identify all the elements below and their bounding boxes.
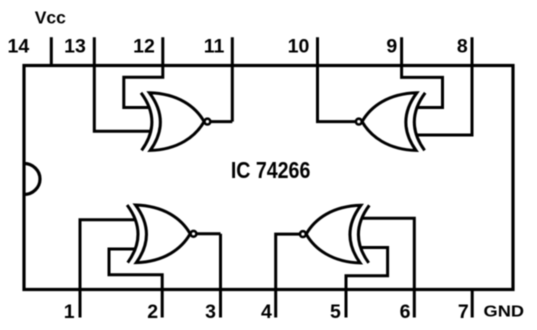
svg-text:3: 3 [205, 301, 216, 323]
svg-text:4: 4 [261, 301, 272, 323]
svg-text:12: 12 [133, 36, 155, 58]
svg-text:8: 8 [457, 36, 468, 58]
svg-text:14: 14 [8, 36, 30, 58]
svg-text:9: 9 [386, 36, 397, 58]
svg-text:GND: GND [484, 304, 525, 321]
svg-text:10: 10 [288, 36, 310, 58]
svg-text:2: 2 [147, 301, 158, 323]
svg-text:11: 11 [204, 36, 225, 58]
svg-text:1: 1 [64, 301, 75, 323]
svg-text:IC 74266: IC 74266 [231, 157, 311, 183]
svg-text:6: 6 [400, 301, 411, 323]
svg-text:5: 5 [330, 301, 341, 323]
svg-text:7: 7 [458, 301, 469, 323]
svg-text:Vcc: Vcc [35, 8, 66, 28]
svg-text:13: 13 [64, 36, 86, 58]
